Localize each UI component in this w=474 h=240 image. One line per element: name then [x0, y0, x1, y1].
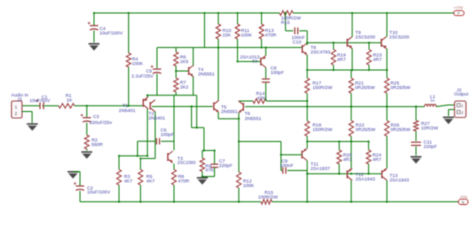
svg-text:0R25/5W: 0R25/5W [356, 127, 376, 133]
svg-text:2.2uF/25V: 2.2uF/25V [132, 73, 155, 79]
svg-text:150R/2W: 150R/2W [313, 85, 333, 91]
svg-text:100pF: 100pF [161, 132, 175, 138]
svg-text:10R/2W: 10R/2W [421, 125, 439, 131]
svg-text:2K2: 2K2 [180, 85, 189, 91]
svg-text:2SC5200: 2SC5200 [355, 34, 375, 40]
svg-text:10uF/50V: 10uF/50V [30, 98, 51, 104]
svg-text:C10: C10 [293, 39, 302, 45]
svg-text:2SA1837: 2SA1837 [311, 166, 331, 172]
svg-text:100K: 100K [132, 61, 144, 67]
svg-text:47K: 47K [205, 168, 214, 174]
svg-text:T7: T7 [252, 59, 258, 65]
svg-text:4K7: 4K7 [146, 179, 155, 185]
svg-text:220pF: 220pF [424, 144, 438, 150]
svg-text:4K7: 4K7 [124, 179, 133, 185]
svg-text:2SC4793: 2SC4793 [311, 49, 331, 55]
svg-text:100K: 100K [241, 33, 253, 39]
svg-text:470R: 470R [265, 33, 277, 39]
svg-text:47K: 47K [257, 95, 266, 101]
svg-text:2: 2 [461, 111, 463, 115]
svg-text:2SA1943: 2SA1943 [390, 177, 410, 183]
svg-text:0R25/5W: 0R25/5W [391, 85, 411, 91]
svg-text:10uF/100V: 10uF/100V [87, 189, 111, 195]
svg-text:560R: 560R [92, 142, 104, 148]
svg-text:1u: 1u [430, 98, 434, 103]
svg-text:2SA1943: 2SA1943 [356, 177, 376, 183]
svg-text:100R/2W: 100R/2W [258, 194, 278, 200]
svg-text:100nF: 100nF [280, 163, 294, 169]
svg-text:Output: Output [454, 92, 469, 98]
svg-text:R16: R16 [281, 20, 290, 26]
svg-text:220pF: 220pF [219, 163, 233, 169]
svg-text:-77V: -77V [459, 195, 468, 200]
svg-text:C3: C3 [93, 114, 99, 120]
svg-text:1K5: 1K5 [180, 59, 189, 65]
svg-text:470R: 470R [178, 179, 190, 185]
svg-text:2N5551: 2N5551 [245, 116, 262, 122]
svg-text:2N5551: 2N5551 [198, 72, 215, 78]
svg-text:0R25/5W: 0R25/5W [391, 127, 411, 133]
svg-text:150R/2W: 150R/2W [313, 127, 333, 133]
svg-text:2SC2383: 2SC2383 [177, 160, 196, 165]
svg-text:2N5401: 2N5401 [119, 108, 136, 114]
svg-text:4R7: 4R7 [373, 157, 382, 163]
svg-text:J1: J1 [17, 96, 22, 102]
svg-text:0R25/5W: 0R25/5W [355, 85, 375, 91]
svg-text:4R7: 4R7 [373, 57, 382, 63]
svg-text:4R7: 4R7 [337, 57, 346, 63]
svg-text:2N5401: 2N5401 [149, 115, 166, 121]
svg-text:1: 1 [461, 104, 463, 108]
svg-text:+77V: +77V [454, 5, 464, 10]
svg-text:220uF/25v: 220uF/25v [90, 120, 113, 126]
svg-text:100pF: 100pF [271, 70, 285, 76]
svg-text:2SC5200: 2SC5200 [389, 34, 409, 40]
svg-text:4R7: 4R7 [343, 157, 352, 163]
svg-text:1K: 1K [67, 98, 74, 104]
svg-text:22K: 22K [223, 33, 232, 39]
svg-text:10uF/100V: 10uF/100V [100, 31, 124, 37]
svg-text:2N5551: 2N5551 [221, 109, 238, 115]
svg-text:100K: 100K [243, 183, 255, 189]
